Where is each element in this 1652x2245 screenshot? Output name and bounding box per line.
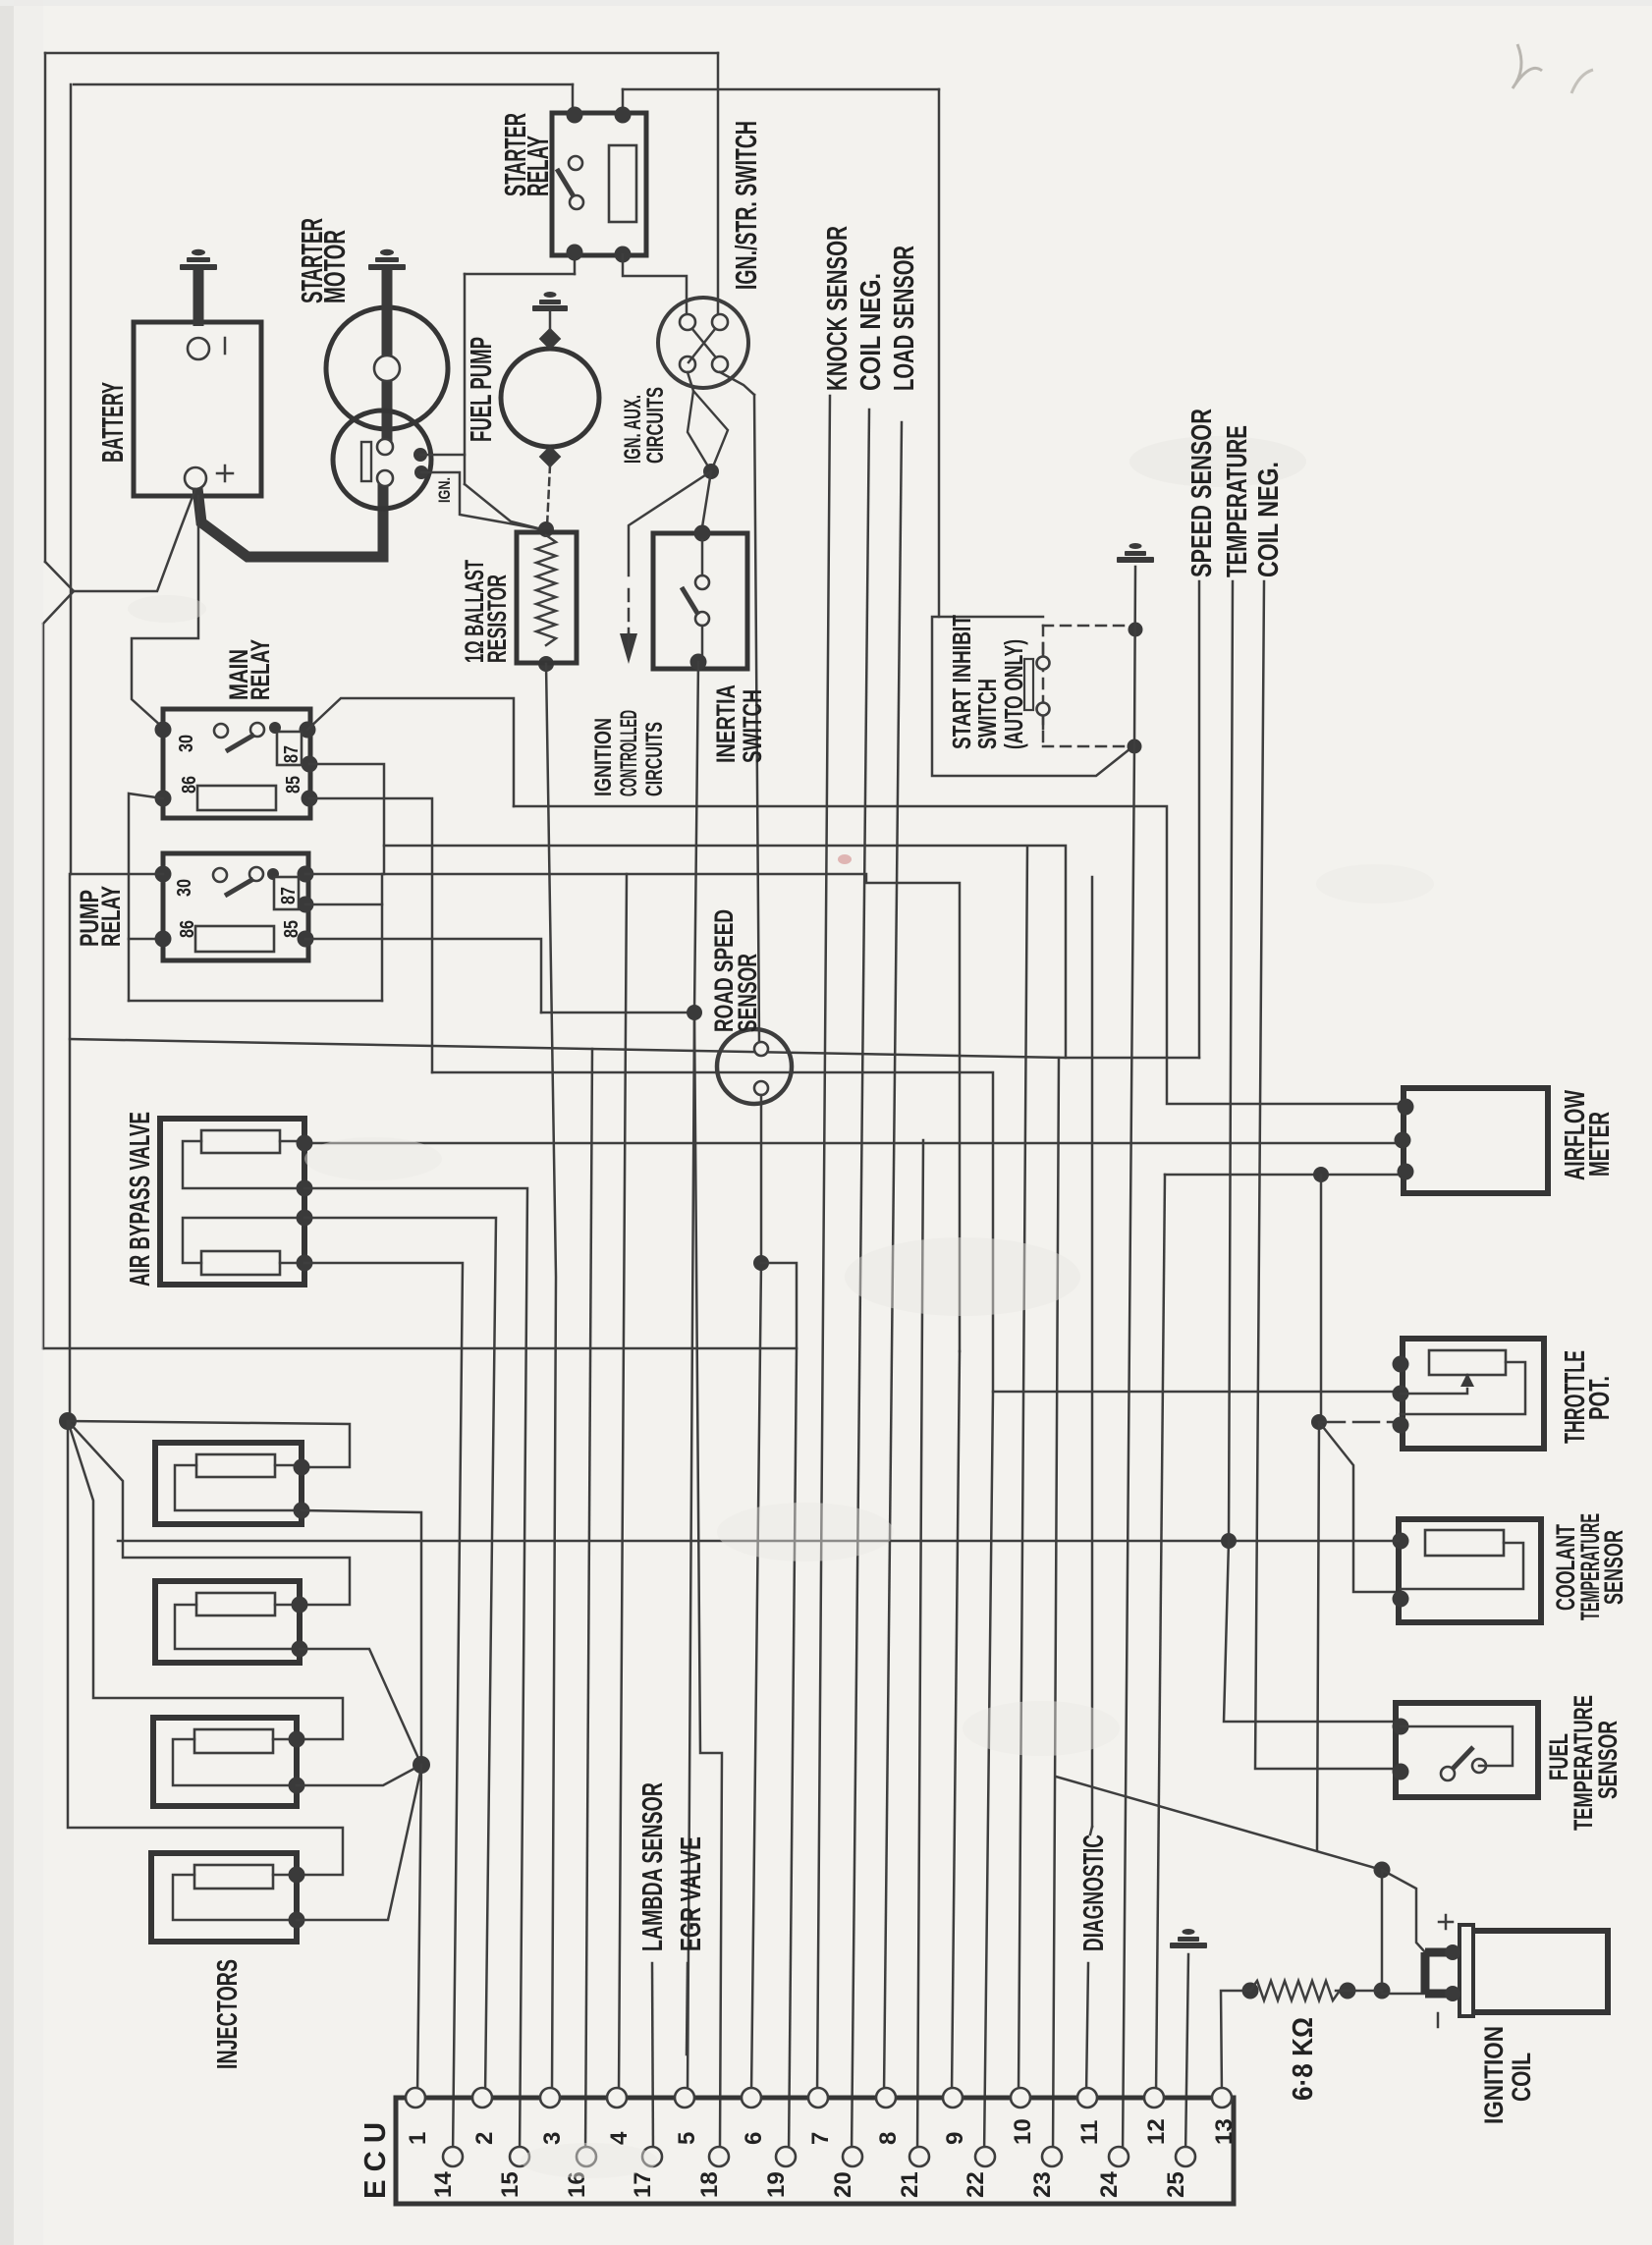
svg-text:LOAD SENSOR: LOAD SENSOR — [889, 246, 920, 391]
svg-text:22: 22 — [963, 2171, 989, 2198]
svg-text:INJECTORS: INJECTORS — [212, 1959, 244, 2069]
svg-text:POT.: POT. — [1584, 1376, 1616, 1420]
svg-text:SENSOR: SENSOR — [1599, 1530, 1628, 1605]
svg-text:85: 85 — [283, 776, 304, 794]
svg-text:DIAGNOSTIC: DIAGNOSTIC — [1078, 1834, 1110, 1951]
svg-text:12: 12 — [1143, 2118, 1170, 2145]
svg-text:21: 21 — [897, 2171, 923, 2198]
svg-text:CIRCUITS: CIRCUITS — [641, 722, 668, 796]
svg-text:(AUTO ONLY): (AUTO ONLY) — [999, 639, 1028, 749]
svg-text:FUEL PUMP: FUEL PUMP — [464, 337, 498, 442]
svg-text:30: 30 — [176, 735, 197, 752]
svg-text:TEMPERATURE: TEMPERATURE — [1222, 425, 1253, 577]
svg-text:13: 13 — [1211, 2118, 1238, 2145]
svg-text:IGN./STR. SWITCH: IGN./STR. SWITCH — [729, 121, 763, 290]
svg-text:86: 86 — [177, 920, 198, 938]
svg-text:5: 5 — [674, 2132, 700, 2145]
svg-text:8: 8 — [875, 2132, 902, 2145]
svg-text:18: 18 — [696, 2171, 723, 2198]
svg-text:E C U: E C U — [358, 2122, 392, 2199]
svg-text:RELAY: RELAY — [521, 136, 555, 196]
svg-text:KNOCK SENSOR: KNOCK SENSOR — [822, 226, 854, 391]
svg-text:6: 6 — [741, 2132, 767, 2145]
svg-text:30: 30 — [174, 879, 195, 897]
svg-text:LAMBDA SENSOR: LAMBDA SENSOR — [637, 1782, 669, 1951]
svg-text:1: 1 — [405, 2132, 431, 2145]
svg-text:RELAY: RELAY — [246, 639, 275, 700]
svg-text:CONTROLLED: CONTROLLED — [616, 710, 642, 796]
svg-text:RELAY: RELAY — [96, 886, 126, 947]
svg-text:EGR VALVE: EGR VALVE — [676, 1836, 707, 1951]
svg-text:10: 10 — [1010, 2118, 1036, 2145]
svg-text:BATTERY: BATTERY — [95, 382, 130, 463]
svg-text:87: 87 — [281, 745, 303, 763]
svg-text:11: 11 — [1076, 2120, 1103, 2145]
svg-text:SPEED SENSOR: SPEED SENSOR — [1186, 409, 1218, 577]
svg-text:COIL NEG.: COIL NEG. — [1253, 462, 1285, 577]
svg-text:COIL: COIL — [1507, 2053, 1536, 2102]
svg-text:CIRCUITS: CIRCUITS — [642, 387, 669, 464]
svg-text:MOTOR: MOTOR — [317, 230, 352, 303]
svg-text:AIR BYPASS VALVE: AIR BYPASS VALVE — [125, 1112, 156, 1287]
svg-text:IGNITION: IGNITION — [1479, 2026, 1509, 2124]
svg-text:INERTIA: INERTIA — [711, 684, 741, 763]
svg-text:14: 14 — [430, 2171, 457, 2198]
svg-text:METER: METER — [1584, 1112, 1616, 1177]
svg-text:85: 85 — [281, 920, 303, 938]
svg-text:4: 4 — [606, 2131, 633, 2145]
svg-text:23: 23 — [1029, 2171, 1056, 2198]
svg-text:3: 3 — [539, 2132, 566, 2145]
svg-text:IGNITION: IGNITION — [590, 718, 617, 796]
svg-text:6·8 KΩ: 6·8 KΩ — [1288, 2017, 1319, 2101]
svg-text:SENSOR: SENSOR — [733, 954, 762, 1032]
svg-text:9: 9 — [942, 2132, 968, 2145]
svg-text:86: 86 — [179, 776, 200, 794]
svg-text:SENSOR: SENSOR — [1593, 1721, 1623, 1799]
svg-text:7: 7 — [807, 2132, 834, 2145]
svg-text:19: 19 — [763, 2171, 790, 2198]
svg-text:IGN.: IGN. — [435, 477, 454, 503]
svg-text:24: 24 — [1096, 2171, 1123, 2198]
svg-text:25: 25 — [1163, 2171, 1189, 2198]
svg-text:15: 15 — [497, 2171, 523, 2198]
svg-text:17: 17 — [630, 2171, 656, 2198]
svg-text:SWITCH: SWITCH — [738, 689, 767, 763]
svg-text:20: 20 — [830, 2171, 856, 2198]
svg-text:RESISTOR: RESISTOR — [482, 575, 512, 663]
svg-text:87: 87 — [278, 887, 300, 904]
svg-text:2: 2 — [471, 2132, 498, 2145]
svg-text:COIL NEG.: COIL NEG. — [855, 273, 887, 391]
svg-text:SWITCH: SWITCH — [972, 679, 1002, 749]
